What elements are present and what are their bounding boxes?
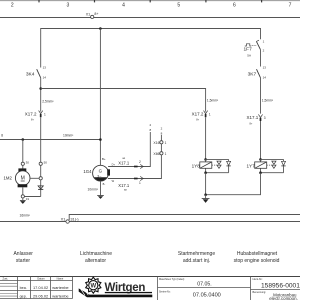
- svg-text:2: 2: [263, 49, 265, 53]
- svg-text:Maschinen Typ (Index):: Maschinen Typ (Index):: [159, 278, 185, 281]
- wire 3K4 to starter term 50: [40, 78, 42, 112]
- svg-text:3: 3: [264, 116, 266, 120]
- svg-text:1: 1: [44, 112, 46, 116]
- svg-text:Zust.: Zust.: [3, 278, 9, 281]
- svg-text:X16: X16: [153, 141, 159, 145]
- svg-text:D+: D+: [112, 162, 116, 166]
- wire alternator B+ riser: [99, 29, 101, 166]
- svg-text:2,5mm²: 2,5mm²: [42, 100, 54, 104]
- ruler tick col6/7: [261, 0, 263, 2]
- svg-text:alternator: alternator: [85, 258, 106, 264]
- svg-text:1: 1: [263, 39, 265, 43]
- terminal X17.2 pin1 left: [25, 111, 46, 122]
- svg-text:3K7: 3K7: [248, 71, 257, 77]
- title block right cell: [250, 277, 252, 300]
- title block left rows: [0, 280, 73, 282]
- diode starter suppression: [38, 180, 43, 197]
- svg-text:10mm²: 10mm²: [88, 187, 99, 191]
- breaker 1F7: [244, 39, 265, 57]
- svg-text:07.05.0400: 07.05.0400: [193, 292, 221, 298]
- svg-text:1F7: 1F7: [244, 47, 253, 53]
- svg-text:Name: Name: [57, 278, 64, 281]
- wire 3K7 to X17.1: [260, 78, 262, 114]
- terminal X17.1 pin3 right: [247, 114, 266, 125]
- svg-text:31(-): 31(-): [70, 217, 79, 222]
- svg-text:8: 8: [149, 128, 151, 132]
- svg-text:M: M: [21, 175, 25, 181]
- svg-text:3K4: 3K4: [26, 71, 35, 77]
- terminal X17.2 pin1 middle: [192, 111, 211, 122]
- node junction left branch: [39, 87, 42, 90]
- wire to starter pin 30: [22, 140, 24, 163]
- wire motor bottom link: [22, 187, 24, 195]
- svg-text:wartenbe: wartenbe: [52, 285, 69, 290]
- svg-text:07.05.: 07.05.: [197, 282, 211, 288]
- ruler tick col4/5: [149, 0, 151, 2]
- svg-text:W: W: [112, 179, 115, 183]
- ground solenoids: [202, 195, 210, 203]
- svg-text:8+: 8+: [196, 119, 199, 122]
- svg-text:Anlasser: Anlasser: [13, 251, 33, 257]
- svg-text:gep.: gep.: [20, 295, 27, 299]
- title block frame top: [0, 276, 300, 278]
- svg-text:G: G: [99, 168, 103, 173]
- wire solenoid grounds: [205, 173, 207, 195]
- svg-text:Hubabstellmagnet: Hubabstellmagnet: [237, 251, 278, 257]
- svg-text:Ident-Nr.:: Ident-Nr.:: [253, 278, 264, 281]
- wire pin50 to solenoid node: [40, 165, 42, 176]
- title block verticals left table: [17, 277, 19, 299]
- terminal X1:8+: [91, 15, 94, 18]
- wire 1F7 to 3K7: [260, 50, 262, 67]
- svg-text:8+: 8+: [94, 12, 98, 16]
- svg-text:3: 3: [67, 2, 70, 8]
- svg-text:1: 1: [165, 152, 167, 156]
- svg-text:X1: X1: [61, 217, 66, 222]
- terminal X1:31: [61, 217, 80, 224]
- node junction bus/alternator riser: [99, 27, 102, 30]
- svg-text:13: 13: [43, 66, 47, 70]
- svg-text:X17.1: X17.1: [247, 115, 259, 120]
- wire motor to solenoid pin: [30, 177, 39, 179]
- svg-text:14: 14: [43, 75, 47, 79]
- node solenoid pin: [39, 177, 42, 180]
- svg-text:Serien-Nr.:: Serien-Nr.:: [159, 290, 171, 293]
- svg-text:1,5mm²: 1,5mm²: [262, 99, 274, 103]
- svg-text:bea.: bea.: [20, 286, 27, 290]
- starter motor 1M2: [4, 168, 31, 187]
- wire pin30 to motor: [22, 165, 24, 168]
- svg-text:29.06.02: 29.06.02: [33, 294, 48, 299]
- wire 31 ground distribution: [69, 215, 300, 221]
- contact 3K7: [248, 65, 267, 79]
- wire switched bus: [41, 29, 261, 68]
- svg-text:5: 5: [177, 2, 180, 8]
- svg-text:31: 31: [26, 197, 30, 201]
- svg-text:2: 2: [161, 126, 163, 130]
- svg-text:X17.2: X17.2: [25, 111, 37, 116]
- svg-text:Startmehrmenge: Startmehrmenge: [178, 251, 215, 257]
- svg-text:8: 8: [161, 131, 163, 135]
- svg-text:17.04.02: 17.04.02: [33, 285, 48, 290]
- node junction alternator: [99, 138, 102, 141]
- svg-text:starter: starter: [16, 258, 31, 264]
- svg-text:1: 1: [165, 141, 167, 145]
- svg-text:1Y7: 1Y7: [247, 164, 256, 169]
- pin 50 starter: [39, 162, 42, 165]
- logo Wirtgen: [79, 277, 153, 297]
- svg-text:4: 4: [122, 2, 125, 8]
- ground starter: [20, 198, 26, 204]
- svg-text:ao: ao: [124, 188, 127, 191]
- svg-text:W: W: [90, 284, 96, 290]
- svg-text:add.start inj.: add.start inj.: [183, 258, 210, 264]
- svg-text:5A: 5A: [247, 53, 251, 57]
- title block middle cell: [157, 277, 159, 300]
- svg-text:wartenbe: wartenbe: [52, 294, 69, 299]
- svg-text:2: 2: [139, 160, 141, 164]
- wire terminal to pin 50: [40, 117, 42, 162]
- terminal X17.1 pin2: [118, 157, 143, 168]
- node ground junction: [204, 193, 207, 196]
- svg-text:Datum: Datum: [37, 278, 44, 281]
- wire B+ bus 10mm2: [0, 139, 100, 141]
- svg-text:8+: 8+: [250, 122, 253, 125]
- ruler tick col3/4: [94, 0, 96, 2]
- ground alternator: [97, 196, 104, 199]
- wire 31 bottom rail: [0, 221, 300, 223]
- svg-text:stop engine solenoid: stop engine solenoid: [234, 258, 280, 264]
- svg-text:B-: B-: [103, 182, 106, 186]
- terminal X16 pin1: [153, 141, 166, 145]
- svg-text:8: 8: [1, 134, 3, 138]
- svg-text:X1: X1: [86, 13, 90, 17]
- alternator 1G4: [83, 157, 115, 186]
- svg-text:1M2: 1M2: [4, 176, 13, 181]
- svg-text:electr.compon.: electr.compon.: [269, 296, 298, 300]
- wire alternator W: [108, 135, 161, 179]
- svg-text:3~: 3~: [97, 174, 102, 178]
- svg-text:1,5mm²: 1,5mm²: [207, 99, 219, 103]
- svg-text:13: 13: [263, 65, 267, 69]
- solenoid 1Y8: [192, 158, 231, 174]
- contact 3K4: [26, 66, 46, 80]
- svg-text:X17.1: X17.1: [118, 161, 130, 166]
- svg-text:158956-0001: 158956-0001: [261, 282, 300, 289]
- wire alternator D+: [108, 132, 150, 167]
- terminal X66 pin1: [153, 152, 166, 156]
- svg-text:2: 2: [149, 123, 151, 127]
- wire bus to relays: [41, 89, 206, 112]
- wire terminal to 1Y7: [260, 121, 262, 159]
- solenoid 1Y7: [247, 158, 286, 174]
- svg-text:X17.2: X17.2: [192, 111, 204, 116]
- ruler tick col2/3: [38, 0, 40, 2]
- svg-text:1: 1: [139, 181, 141, 185]
- svg-text:1Y8: 1Y8: [192, 164, 201, 169]
- wire 8+ supply line: [0, 17, 300, 19]
- svg-text:16mm²: 16mm²: [20, 214, 31, 218]
- svg-text:1G4: 1G4: [83, 169, 92, 174]
- svg-text:10mm²: 10mm²: [63, 134, 74, 138]
- svg-text:Lichtmaschine: Lichtmaschine: [80, 251, 112, 257]
- terminal X17.1 pin1: [118, 176, 143, 191]
- svg-text:X66: X66: [153, 152, 159, 156]
- svg-text:8+: 8+: [31, 119, 34, 122]
- ruler top edge: [0, 0, 300, 2]
- pin 30 starter: [21, 162, 24, 165]
- wire alternator ground: [100, 181, 102, 196]
- node junction starter: [22, 138, 25, 141]
- svg-text:2: 2: [11, 2, 14, 8]
- svg-text:X17.1: X17.1: [118, 183, 130, 188]
- svg-text:7: 7: [289, 2, 292, 8]
- svg-text:Benennung:: Benennung:: [253, 291, 267, 294]
- svg-text:1: 1: [209, 112, 211, 116]
- svg-text:50: 50: [44, 160, 48, 164]
- ruler tick col5/6: [205, 0, 207, 2]
- svg-text:30: 30: [26, 160, 30, 164]
- svg-text:14: 14: [263, 75, 267, 79]
- svg-text:B+: B+: [102, 157, 106, 161]
- wire terminal to 1Y8: [205, 117, 207, 159]
- svg-text:6: 6: [233, 2, 236, 8]
- pin motor ground: [21, 195, 24, 198]
- revision mini rows: [0, 283, 18, 285]
